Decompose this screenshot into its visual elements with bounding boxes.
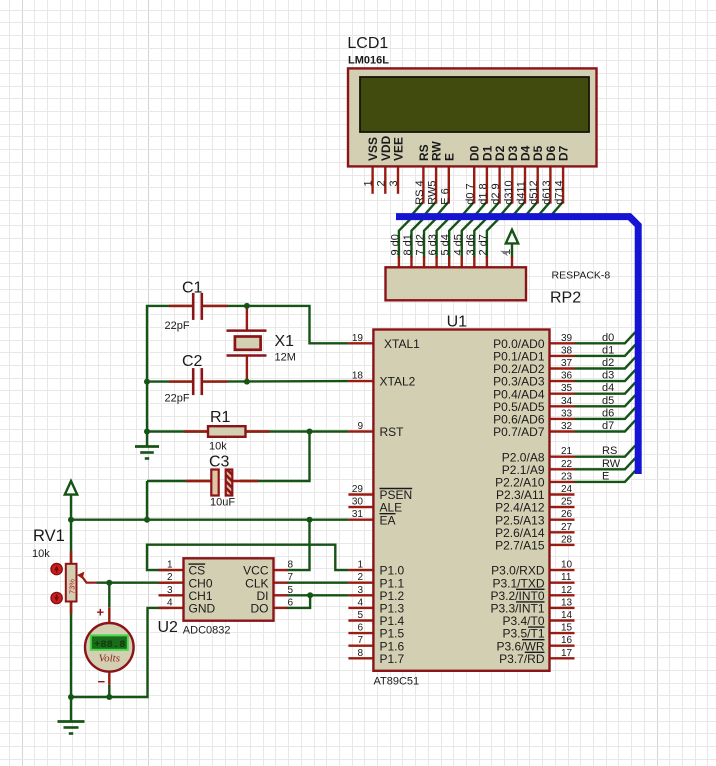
capacitor C1 (193, 293, 202, 320)
svg-text:22pF: 22pF (165, 320, 190, 332)
svg-text:28: 28 (561, 534, 573, 545)
junction VCC rail at C3 column (144, 517, 150, 523)
wire U1 port0 and control pins to bus (575, 332, 636, 482)
svg-text:−: − (98, 674, 106, 689)
svg-text:5: 5 (357, 610, 363, 621)
wire C2 right segment to XTAL2 (203, 380, 348, 383)
wire C1 top net to XTAL1 (203, 306, 348, 343)
svg-text:C1: C1 (182, 280, 203, 297)
svg-text:4: 4 (167, 597, 173, 608)
svg-text:39: 39 (561, 333, 573, 344)
svg-text:E 6: E 6 (439, 188, 451, 205)
svg-text:Volts: Volts (99, 653, 120, 665)
svg-text:P0.7/AD7: P0.7/AD7 (493, 425, 545, 439)
svg-text:9: 9 (357, 421, 363, 432)
label C2 reference (182, 353, 203, 370)
svg-text:d6: d6 (602, 407, 614, 419)
voltmeter lead stubs (108, 607, 110, 685)
voltmeter body (85, 623, 134, 672)
label R1 reference (210, 409, 231, 426)
svg-text:24: 24 (561, 484, 573, 495)
svg-text:RP2: RP2 (550, 290, 581, 307)
U2 left pin names (189, 564, 216, 616)
junction wiper node (106, 580, 112, 586)
svg-text:3: 3 (357, 585, 363, 596)
svg-text:7 d2: 7 d2 (415, 234, 427, 255)
svg-text:2 d7: 2 d7 (477, 234, 489, 255)
svg-text:12M: 12M (275, 352, 296, 364)
svg-text:6: 6 (288, 597, 294, 608)
svg-text:9 d0: 9 d0 (389, 234, 401, 255)
junction VCC rail at power arrow (68, 517, 74, 523)
svg-text:33: 33 (561, 408, 573, 419)
svg-text:+: + (97, 605, 105, 620)
mouse cursor artifact (502, 251, 511, 255)
svg-text:RW5: RW5 (427, 181, 439, 205)
wire U2 CS to U1 P1.0 (147, 545, 348, 570)
potentiometer RV1 body (66, 564, 77, 602)
wire power arrow stem (70, 493, 72, 520)
svg-text:11: 11 (561, 572, 572, 583)
RV1 lead stubs (70, 551, 72, 614)
LCD pin number labels 1-3 (363, 180, 400, 186)
U2 pin stubs (159, 570, 288, 608)
svg-text:d613: d613 (541, 180, 553, 204)
svg-text:1: 1 (357, 560, 363, 571)
U1 XTAL1 pin arrow (374, 339, 382, 347)
svg-text:GND: GND (189, 602, 216, 616)
U1 left pin numbers (352, 333, 364, 659)
junction left column R1 row (144, 429, 150, 435)
svg-text:18: 18 (352, 371, 364, 382)
label RESPACK-8 value (552, 270, 611, 282)
svg-text:ADC0832: ADC0832 (183, 625, 231, 637)
U1 right pin names (490, 337, 544, 666)
wire VCC rail to EA (71, 519, 348, 521)
U1 left pin stubs (348, 343, 373, 658)
svg-text:34: 34 (561, 396, 573, 407)
svg-text:AT89C51: AT89C51 (374, 676, 420, 688)
U2 right pin names (243, 564, 269, 616)
LCD LCD1 body (348, 68, 597, 166)
svg-text:d411: d411 (516, 181, 528, 205)
RP2 pin stubs (399, 257, 512, 268)
svg-text:RV1: RV1 (33, 527, 65, 545)
svg-text:d2: d2 (602, 357, 614, 369)
svg-text:10k: 10k (209, 441, 227, 453)
svg-text:3: 3 (167, 585, 173, 596)
svg-text:8: 8 (288, 560, 294, 571)
label LM016L value (348, 55, 389, 67)
svg-text:22pF: 22pF (165, 393, 190, 405)
capacitor C2 lead stubs (169, 380, 228, 382)
U2 right pin numbers (288, 560, 294, 609)
wire VCC rail down to U2 VCC pin (287, 520, 310, 570)
svg-text:27: 27 (561, 522, 573, 533)
junction left column C2 row (144, 379, 150, 385)
label AT89C51 value (374, 676, 420, 688)
svg-text:RESPACK-8: RESPACK-8 (552, 270, 611, 282)
label LCD1 reference (347, 35, 388, 52)
capacitor C2 (193, 368, 202, 395)
svg-text:d3: d3 (602, 370, 614, 382)
svg-text:37: 37 (561, 358, 573, 369)
svg-text:14: 14 (561, 610, 573, 621)
wire R1 row to RST (147, 430, 348, 432)
U2 CS overline (189, 563, 206, 565)
crystal X1 lead stubs (246, 308, 248, 380)
label C3 value 10uF (210, 497, 235, 509)
svg-text:d1: d1 (602, 344, 614, 356)
resistor pack RP2 body (386, 267, 527, 300)
wire RP2 pins to bus (399, 217, 501, 258)
label U2 reference (158, 619, 179, 636)
svg-text:6 d3: 6 d3 (427, 234, 439, 255)
svg-text:P1.7: P1.7 (380, 652, 405, 666)
svg-text:RS 4: RS 4 (414, 180, 426, 204)
crystal X1 (227, 331, 267, 356)
wire LCD RS RW E data pins to bus (408, 202, 563, 220)
svg-text:EA: EA (380, 513, 396, 527)
wire U2 DI to U1 P1.2 (287, 594, 349, 596)
label RV1 value 10k (32, 548, 50, 560)
wire RV1 bottom to ground rail (70, 602, 72, 698)
svg-text:10uF: 10uF (210, 497, 235, 509)
svg-text:XTAL2: XTAL2 (380, 375, 416, 389)
RV1 increment button (51, 564, 62, 575)
LCD1 pin stubs (373, 166, 563, 203)
svg-text:C2: C2 (182, 353, 203, 370)
svg-text:2: 2 (167, 572, 173, 583)
label ADC0832 value (183, 625, 231, 637)
label RP2 reference (550, 290, 581, 307)
resistor R1 (208, 426, 246, 437)
svg-text:d5: d5 (602, 395, 614, 407)
U1 bus net labels d0-d7 RS RW E (602, 332, 621, 483)
svg-text:2: 2 (357, 572, 363, 583)
IC U2 ADC0832 body (184, 558, 274, 620)
svg-text:RS: RS (602, 445, 617, 457)
svg-text:LM016L: LM016L (348, 55, 389, 67)
svg-text:d4: d4 (602, 382, 614, 394)
svg-text:13: 13 (561, 597, 573, 608)
svg-text:+88.8: +88.8 (94, 639, 126, 651)
RP2 pin labels (389, 234, 513, 255)
svg-text:d7: d7 (602, 420, 614, 432)
resistor R1 lead stubs (184, 430, 270, 432)
IC U1 AT89C51 body (373, 330, 549, 671)
svg-text:19: 19 (352, 333, 364, 344)
wire C2 left segment (147, 380, 193, 382)
svg-text:15: 15 (561, 623, 573, 634)
svg-text:d0 7: d0 7 (465, 183, 477, 204)
svg-text:P3.7/RD: P3.7/RD (499, 652, 545, 666)
svg-text:d2 9: d2 9 (490, 183, 502, 204)
svg-text:26: 26 (561, 509, 573, 520)
label C2 value 22pF (165, 393, 190, 405)
junction RST node (307, 429, 313, 435)
svg-text:RW: RW (602, 458, 621, 470)
svg-text:4: 4 (357, 597, 363, 608)
wire C1 left to left column down to R1 row (147, 306, 193, 432)
svg-text:U1: U1 (447, 314, 468, 331)
svg-text:12: 12 (561, 585, 573, 596)
svg-text:16: 16 (561, 635, 573, 646)
bus data/control bus (396, 217, 638, 474)
label X1 reference (275, 333, 295, 350)
wire RV1 top to VCC rail (70, 520, 72, 564)
svg-text:LCD1: LCD1 (347, 35, 388, 52)
label U1 reference (447, 314, 468, 331)
svg-text:4 d5: 4 d5 (452, 234, 464, 255)
svg-text:E: E (442, 153, 456, 161)
U1 active-low overlines (380, 489, 545, 653)
svg-text:DO: DO (251, 602, 269, 616)
svg-text:VEE: VEE (392, 137, 406, 161)
svg-text:21: 21 (561, 446, 573, 457)
svg-text:22: 22 (561, 459, 573, 470)
svg-text:U2: U2 (158, 619, 179, 636)
svg-text:6: 6 (357, 623, 363, 634)
svg-text:d0: d0 (602, 332, 614, 344)
wire U2 CLK to U1 P1.1 (287, 582, 349, 584)
svg-text:17: 17 (561, 648, 573, 659)
U1 right pin stubs (550, 343, 575, 658)
svg-text:31: 31 (352, 509, 364, 520)
svg-text:25: 25 (561, 497, 573, 508)
svg-text:R1: R1 (210, 409, 231, 426)
svg-text:29: 29 (352, 484, 364, 495)
svg-text:10k: 10k (32, 548, 50, 560)
svg-text:73%: 73% (68, 579, 77, 594)
svg-text:d310: d310 (503, 180, 515, 204)
U1 left pin names (380, 337, 421, 666)
svg-text:7: 7 (357, 635, 363, 646)
svg-text:X1: X1 (275, 333, 295, 350)
wire C3 left segment (147, 480, 215, 482)
svg-text:E: E (602, 470, 609, 482)
svg-text:30: 30 (352, 497, 364, 508)
svg-text:7: 7 (288, 572, 294, 583)
svg-text:P2.7/A15: P2.7/A15 (495, 539, 545, 553)
svg-text:38: 38 (561, 345, 573, 356)
svg-text:1: 1 (363, 180, 375, 186)
RV1 wiper arrow (77, 572, 97, 583)
label R1 value 10k (209, 441, 227, 453)
ground symbol at R1 column (135, 432, 159, 459)
svg-text:C3: C3 (209, 454, 230, 471)
capacitor C3 electrolytic (211, 470, 232, 496)
junction VCC rail at U2 column (307, 517, 313, 523)
power arrow at VCC rail (65, 481, 77, 495)
ground symbol at bottom rail (58, 697, 85, 734)
RV1 decrement button (51, 592, 62, 603)
U1 right pin numbers (561, 333, 573, 659)
svg-text:35: 35 (561, 383, 573, 394)
svg-text:8 d1: 8 d1 (402, 234, 414, 255)
svg-text:XTAL1: XTAL1 (384, 337, 420, 351)
power arrow at RP2 pin 1 (506, 230, 518, 244)
svg-text:3: 3 (388, 180, 400, 186)
wire U2 DO loop up to DI net (287, 595, 311, 608)
svg-text:2: 2 (375, 180, 387, 186)
wire ground rail bottom (71, 608, 170, 697)
svg-text:RST: RST (380, 425, 405, 439)
junction ground rail at RV1 (68, 694, 74, 700)
junction DI/DO node (307, 592, 313, 598)
voltmeter plus terminal label (97, 605, 105, 620)
capacitor C1 lead stubs (169, 305, 228, 307)
svg-text:1: 1 (167, 560, 173, 571)
label X1 value 12M (275, 352, 296, 364)
label C3 reference (209, 454, 230, 471)
svg-text:32: 32 (561, 421, 573, 432)
svg-text:10: 10 (561, 560, 573, 571)
svg-text:D7: D7 (557, 145, 571, 161)
wire voltmeter negative to ground rail (108, 685, 110, 697)
svg-text:d714: d714 (554, 180, 566, 204)
svg-text:8: 8 (357, 648, 363, 659)
junction C2/X1 bottom node (244, 379, 250, 385)
junction C1/X1 top node (244, 303, 250, 309)
junction ground rail at voltmeter (106, 694, 112, 700)
svg-text:36: 36 (561, 371, 573, 382)
label C1 value 22pF (165, 320, 190, 332)
svg-text:5 d4: 5 d4 (440, 234, 452, 255)
svg-text:5: 5 (288, 585, 294, 596)
svg-text:23: 23 (561, 471, 573, 482)
svg-text:d512: d512 (528, 180, 540, 204)
LCD pin net labels RS RW E d0-d7 (414, 180, 566, 204)
svg-text:3 d6: 3 d6 (465, 234, 477, 255)
voltmeter minus terminal label (98, 674, 106, 689)
wire C3 left column down to VCC rail (146, 481, 148, 520)
wire RST junction down to C3 right lead (240, 432, 310, 482)
label C1 reference (182, 280, 203, 297)
svg-text:d1 8: d1 8 (477, 183, 489, 204)
U2 left pin numbers (167, 560, 173, 609)
wire RP2 pin1 to power arrow (511, 243, 513, 258)
wire RV1 wiper to U2 CH0 and voltmeter (97, 583, 170, 608)
label RV1 reference (33, 527, 65, 545)
capacitor C3 lead stubs (186, 480, 259, 482)
